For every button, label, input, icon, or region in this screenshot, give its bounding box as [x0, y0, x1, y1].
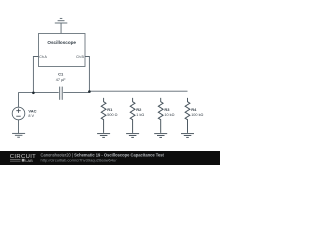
CircuitLab logo — [10, 154, 36, 163]
resistor R4 — [181, 98, 194, 137]
labels — [28, 40, 203, 118]
wire right rail — [89, 90, 187, 92]
voltage source V1 wire up — [18, 92, 20, 107]
voltage source V1 circle — [12, 107, 25, 120]
svg-text:R1: R1 — [107, 107, 113, 112]
svg-text:100 kΩ: 100 kΩ — [191, 113, 203, 117]
svg-text:VAC: VAC — [28, 109, 36, 114]
svg-text:Ch B: Ch B — [76, 55, 84, 59]
svg-text:R4: R4 — [191, 107, 197, 112]
svg-text:Oscilloscope: Oscilloscope — [47, 40, 76, 45]
resistor R1 — [97, 98, 110, 137]
svg-text:LAB: LAB — [25, 158, 33, 163]
oscilloscope U1 box — [39, 34, 86, 67]
svg-text:500 Ω: 500 Ω — [107, 113, 117, 117]
wire Ch B stub — [85, 57, 89, 92]
wire mid rail — [63, 91, 89, 93]
footer bar — [0, 151, 220, 165]
resistor R2 — [126, 98, 139, 137]
ground (top, flipped) — [55, 18, 68, 33]
svg-text:Canonshooter20 | Schematic 19: Canonshooter20 | Schematic 19 - Oscillos… — [41, 152, 165, 157]
svg-text:Ch A: Ch A — [39, 55, 47, 59]
svg-text:http://circuitlab.com/c/7hv39a: http://circuitlab.com/c/7hv39aqu26eaw64u… — [41, 158, 118, 163]
junction node B — [88, 90, 91, 93]
svg-text:1 kΩ: 1 kΩ — [136, 113, 144, 117]
wire Ch A stub — [33, 57, 38, 93]
junction node A — [32, 92, 35, 95]
ground under source — [12, 133, 25, 137]
wire left rail — [19, 91, 59, 93]
svg-text:10 kΩ: 10 kΩ — [164, 113, 174, 117]
svg-text:8 V: 8 V — [28, 114, 34, 118]
capacitor C1 — [60, 87, 63, 100]
svg-text:R2: R2 — [136, 107, 142, 112]
svg-text:R3: R3 — [164, 107, 170, 112]
svg-text:C1: C1 — [58, 72, 64, 77]
svg-text:47 µF: 47 µF — [56, 78, 66, 82]
wire below source — [18, 120, 20, 133]
plus sign — [16, 109, 20, 117]
resistors R1-R4 — [97, 98, 194, 137]
resistor R3 — [154, 98, 167, 137]
